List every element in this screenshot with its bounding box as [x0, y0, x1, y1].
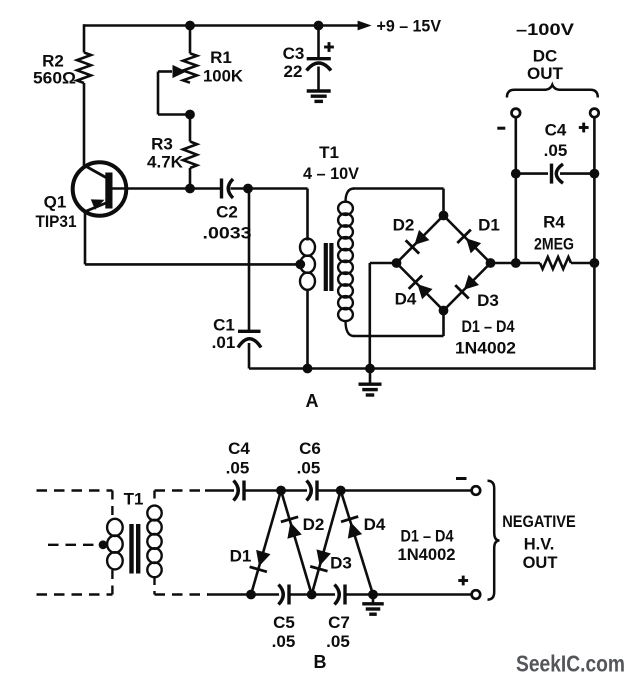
- label + (A): [579, 123, 589, 133]
- dashed wire: primary top stub: [111, 491, 113, 520]
- svg-text:.05: .05: [297, 459, 321, 478]
- diode D1: [457, 230, 481, 254]
- wire: node down to C1: [248, 189, 251, 331]
- svg-text:100K: 100K: [203, 67, 244, 86]
- svg-text:–100V: –100V: [516, 20, 575, 39]
- svg-text:.05: .05: [226, 459, 250, 478]
- wire: rail corner down to R2: [83, 24, 86, 52]
- diode D4: [409, 275, 433, 299]
- label +9-15V: [377, 17, 442, 36]
- label OUT(A): [527, 64, 564, 83]
- svg-text:4.7K: 4.7K: [147, 153, 184, 172]
- capacitor C2: [222, 179, 234, 199]
- svg-text:R3: R3: [151, 135, 173, 154]
- svg-text:C7: C7: [328, 613, 350, 632]
- label A: [306, 391, 319, 411]
- svg-text:D2: D2: [393, 216, 415, 235]
- label .0033: [203, 224, 252, 243]
- ground (main section A): [359, 369, 382, 396]
- label D1: [478, 216, 500, 235]
- svg-text:OUT: OUT: [523, 554, 558, 572]
- svg-text:560Ω: 560Ω: [33, 69, 76, 88]
- label D3 (B): [330, 554, 352, 573]
- label D4: [395, 290, 417, 309]
- svg-text:2MEG: 2MEG: [534, 235, 574, 254]
- label R1: [210, 48, 232, 67]
- diode D3 (B): [310, 549, 331, 571]
- transistor Q1: [73, 162, 127, 216]
- svg-text:R1: R1: [210, 48, 232, 67]
- junction: bridge top vertex: [439, 211, 449, 221]
- dashed lead: B input tap: [48, 544, 98, 546]
- label NEGATIVE: [502, 513, 576, 531]
- wire: C6 to top node 2: [317, 489, 341, 492]
- label TIP31: [36, 212, 77, 231]
- svg-text:D1: D1: [230, 547, 252, 566]
- label C4 (A): [545, 121, 567, 140]
- svg-text:.05: .05: [544, 141, 568, 160]
- label T1 (B): [124, 490, 144, 509]
- label C3: [283, 44, 305, 63]
- diode D2 (B): [281, 517, 302, 539]
- dashed wire: primary bottom stub: [111, 570, 113, 595]
- junction: rail / C3: [314, 21, 324, 31]
- wire: secondary top to bridge top vertex: [353, 189, 444, 217]
- wire: C5 to B2: [289, 593, 312, 596]
- wire: B2 to C7: [312, 593, 335, 596]
- label 1N4002 (B): [398, 545, 456, 564]
- wire: B1 to C5: [251, 593, 279, 596]
- capacitor C6: [307, 481, 318, 501]
- svg-text:.05: .05: [272, 632, 296, 651]
- label C7: [328, 613, 350, 632]
- wire: ground node to + terminal: [373, 593, 472, 596]
- resistor R2: [77, 53, 91, 84]
- wire: diagonal top node2 to bottom node2: [312, 491, 341, 595]
- svg-text:SeekIC.com: SeekIC.com: [516, 651, 625, 677]
- wire: bridge right vertex to output rail: [491, 262, 516, 265]
- label D2 (B): [303, 515, 325, 534]
- label H.V.: [524, 536, 555, 554]
- label - (A): [497, 127, 505, 130]
- wire: bridge left vertex to bottom rail: [370, 263, 397, 369]
- wire: B bottom row to B1: [207, 593, 251, 596]
- svg-text:22: 22: [284, 62, 303, 81]
- label 100K: [203, 67, 244, 86]
- svg-text:4 – 10V: 4 – 10V: [303, 164, 360, 183]
- svg-text:.01: .01: [212, 333, 236, 352]
- diode D3: [455, 275, 479, 299]
- brace at H.V. OUT: [488, 481, 500, 600]
- label R3: [151, 135, 173, 154]
- junction: tap dot (B): [99, 540, 108, 549]
- wire: Q1 emitter down and right to T1 tap: [85, 212, 300, 265]
- label C1: [213, 316, 235, 335]
- svg-text:T1: T1: [124, 490, 144, 509]
- svg-text:1N4002: 1N4002: [455, 339, 516, 358]
- label .05 C4 (A): [544, 141, 568, 160]
- dashed lead: B input top: [37, 489, 113, 491]
- label DC: [533, 47, 558, 66]
- svg-text:.05: .05: [326, 632, 350, 651]
- capacitor C7: [335, 585, 346, 605]
- label C5: [273, 613, 295, 632]
- wire: R1 to R3: [189, 115, 192, 142]
- ground (C3): [307, 91, 331, 101]
- wire: rail to C3: [317, 26, 320, 58]
- svg-text:T1: T1: [319, 143, 339, 162]
- svg-text:D1 – D4: D1 – D4: [462, 317, 515, 336]
- wire: top node1 to C6: [281, 489, 307, 492]
- transformer T1 primary winding (B): [107, 519, 123, 570]
- junction: C4 right (A): [590, 169, 600, 179]
- capacitor C1: [238, 331, 261, 368]
- label 4.7K: [147, 153, 184, 172]
- svg-text:DC: DC: [533, 47, 558, 66]
- junction: R1 wiper / R3: [185, 110, 195, 120]
- label .05 C5: [272, 632, 296, 651]
- svg-text:Q1: Q1: [44, 193, 67, 212]
- terminal - (B): [472, 486, 481, 495]
- junction: C4 left (A): [511, 169, 521, 179]
- svg-text:C4: C4: [545, 121, 567, 140]
- label 4-10V: [303, 164, 360, 183]
- junction: C2 / C1 node: [243, 184, 253, 194]
- svg-text:H.V.: H.V.: [524, 536, 555, 554]
- wire: C7 to ground node: [345, 593, 373, 596]
- junction: bridge right vertex: [486, 258, 496, 268]
- wire: B top row to C4: [205, 489, 234, 492]
- junction: base / R3: [185, 184, 195, 194]
- label + (B): [458, 576, 468, 586]
- wire: +V supply top rail: [84, 24, 359, 27]
- capacitor C4 (B): [234, 481, 245, 501]
- svg-text:D2: D2: [303, 515, 325, 534]
- label C6: [299, 439, 321, 458]
- label 560ohm: [33, 69, 76, 88]
- diode D4 (B): [341, 516, 362, 538]
- junction: B top node 1: [276, 486, 286, 496]
- wire: R3 to base node: [189, 168, 192, 189]
- svg-text:B: B: [314, 652, 327, 672]
- label Q1: [44, 193, 67, 212]
- svg-text:D1 – D4: D1 – D4: [401, 527, 454, 546]
- junction: bottom rail / T1 primary: [303, 364, 313, 374]
- svg-text:D3: D3: [330, 554, 352, 573]
- capacitor C5: [279, 585, 290, 605]
- label D1-D4 (A): [462, 317, 515, 336]
- junction: B top node 2: [336, 486, 346, 496]
- svg-text:1N4002: 1N4002: [398, 545, 456, 564]
- junction: bridge left vertex: [392, 258, 402, 268]
- label 2MEG: [534, 235, 574, 254]
- dashed wire: B bottom row dashes: [155, 593, 209, 595]
- svg-text:C1: C1: [213, 316, 235, 335]
- terminal + (B): [472, 590, 481, 599]
- label -100V: [516, 20, 575, 39]
- junction: B ground node: [368, 590, 378, 600]
- junction: bottom rail / bridge-ground: [365, 364, 375, 374]
- label D2: [393, 216, 415, 235]
- svg-text:C6: C6: [299, 439, 321, 458]
- svg-text:C2: C2: [216, 203, 238, 222]
- watermark SeekIC.com: [516, 651, 625, 677]
- wire: diagonal top node1 to bottom node1: [251, 491, 281, 595]
- wire: C4 to top node 1: [244, 489, 281, 492]
- svg-text:C5: C5: [273, 613, 295, 632]
- junction: B bottom node 2: [307, 590, 317, 600]
- svg-text:TIP31: TIP31: [36, 212, 77, 231]
- terminal + (A): [590, 109, 599, 118]
- junction: R4 left: [511, 258, 521, 268]
- wire: rail to R1: [189, 26, 192, 54]
- wire: -100V left rail: [514, 117, 517, 263]
- junction: R4 right: [590, 258, 600, 268]
- wire: bridge edges: [397, 216, 491, 311]
- svg-text:D4: D4: [395, 290, 417, 309]
- label R4: [543, 213, 565, 232]
- dashed wire: secondary top stub: [153, 491, 155, 507]
- label D3: [477, 291, 499, 310]
- label 1N4002 (A): [455, 339, 516, 358]
- wire: -100V right rail: [593, 117, 596, 370]
- supply arrow head: [358, 21, 372, 31]
- diode D1 (B): [250, 550, 271, 572]
- capacitor C4 (A): [516, 164, 595, 184]
- dashed wire: secondary bottom stub: [153, 577, 155, 595]
- label D1 (B): [230, 547, 252, 566]
- svg-text:+9 – 15V: +9 – 15V: [377, 17, 442, 36]
- transformer T1 core (A): [326, 243, 332, 291]
- diode D2: [406, 230, 430, 254]
- transformer T1 core (B): [132, 524, 139, 574]
- label D4 (B): [364, 515, 386, 534]
- wire: top node 2 to - terminal: [341, 489, 472, 492]
- svg-text:OUT: OUT: [527, 64, 564, 83]
- label C4 (B): [228, 439, 250, 458]
- label .01: [212, 333, 236, 352]
- label D1-D4 (B): [401, 527, 454, 546]
- svg-text:C3: C3: [283, 44, 305, 63]
- svg-text:D4: D4: [364, 515, 386, 534]
- svg-text:NEGATIVE: NEGATIVE: [502, 513, 576, 531]
- transformer T1 primary winding (A): [300, 189, 315, 369]
- junction: bridge bottom vertex: [439, 306, 449, 316]
- svg-text:A: A: [306, 391, 319, 411]
- svg-text:C4: C4: [228, 439, 250, 458]
- label .05 C7: [326, 632, 350, 651]
- brace over DC OUT terminals: [507, 85, 598, 98]
- junction: B bottom node 1: [246, 590, 256, 600]
- label B: [314, 652, 327, 672]
- label 22: [284, 62, 303, 81]
- dashed lead: B input bottom: [37, 593, 113, 595]
- resistor R3: [183, 142, 197, 169]
- wire: Q1 base to C2: [112, 187, 221, 190]
- junction: emitter / T1 primary tap: [295, 259, 305, 269]
- label T1 (A): [319, 143, 339, 162]
- capacitor C3: [307, 59, 332, 90]
- svg-text:.0033: .0033: [203, 224, 252, 243]
- label C2: [216, 203, 238, 222]
- transformer T1 secondary winding (B): [147, 506, 161, 578]
- wire: bottom rail: [249, 367, 596, 370]
- ground (section B): [362, 595, 384, 615]
- transformer T1 secondary winding (A): [338, 189, 354, 337]
- label - (B): [456, 477, 467, 480]
- wire: diagonal top node1 to bottom node2: [281, 491, 312, 595]
- svg-text:R4: R4: [543, 213, 565, 232]
- wire: secondary bottom to bridge bottom vertex: [353, 310, 444, 336]
- potentiometer R1: [158, 53, 197, 114]
- label .05 C4 (B): [226, 459, 250, 478]
- svg-text:D1: D1: [478, 216, 500, 235]
- polarity + (C3): [324, 42, 334, 52]
- resistor R4: [516, 257, 595, 269]
- wire: diagonal top node2 to ground node: [341, 491, 373, 595]
- junction: rail / R1: [185, 21, 195, 31]
- label R2: [42, 52, 64, 71]
- svg-text:D3: D3: [477, 291, 499, 310]
- label OUT (B): [523, 554, 558, 572]
- label .05 C6: [297, 459, 321, 478]
- wire: R2 to Q1 collector: [83, 83, 86, 167]
- terminal - (A): [512, 109, 521, 118]
- wire: C2 to T1 primary top: [231, 187, 308, 190]
- dashed wire: B top row dashes: [155, 489, 207, 491]
